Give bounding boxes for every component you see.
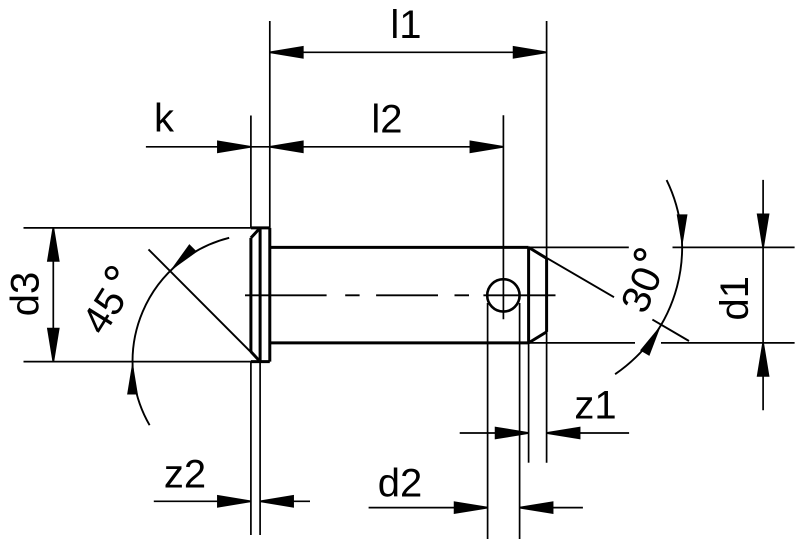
svg-text:l1: l1 <box>390 3 421 47</box>
dimension l1 line with arrows <box>270 47 547 58</box>
centerline (dash-dot axis) <box>245 294 556 296</box>
svg-text:z2: z2 <box>164 453 206 497</box>
dimension z2 with outside arrows <box>154 496 310 507</box>
svg-text:d3: d3 <box>3 272 47 317</box>
svg-text:d1: d1 <box>713 276 757 321</box>
svg-text:30: 30 <box>613 261 671 319</box>
svg-text:l2: l2 <box>371 98 402 142</box>
svg-text:45: 45 <box>74 281 135 342</box>
45-degree angle arc with arrows <box>133 238 230 425</box>
z1 extension line <box>528 343 530 463</box>
degree ring of 45 label <box>106 267 117 278</box>
dimension d1 line with outside arrows <box>758 180 769 410</box>
z2 extension lines <box>251 362 260 535</box>
cross hole circle <box>487 279 519 311</box>
pin shaft outline <box>270 247 547 343</box>
30-degree chamfer guide line (two segments around label) <box>529 247 689 341</box>
dimension k / l2 line with arrows <box>146 141 504 152</box>
dimension z1 with outside arrows <box>460 428 629 439</box>
k extension line <box>250 116 252 228</box>
pin head outline <box>251 228 270 362</box>
45-degree chamfer guide line <box>149 249 261 361</box>
30-degree angle arc with arrows <box>615 180 682 374</box>
d2 extension lines <box>488 303 520 539</box>
hole vertical center line / l2 extension <box>502 115 504 319</box>
dimension d2 with outside arrows <box>369 502 583 513</box>
l1 extension lines <box>270 21 547 463</box>
svg-text:z1: z1 <box>574 383 616 427</box>
svg-text:k: k <box>154 97 175 141</box>
degree ring of 30 label <box>635 250 645 260</box>
d3 extension lines <box>24 228 251 362</box>
dimension d3 line with arrows <box>48 228 59 362</box>
svg-text:d2: d2 <box>378 462 423 506</box>
d1 extension lines <box>529 247 795 343</box>
